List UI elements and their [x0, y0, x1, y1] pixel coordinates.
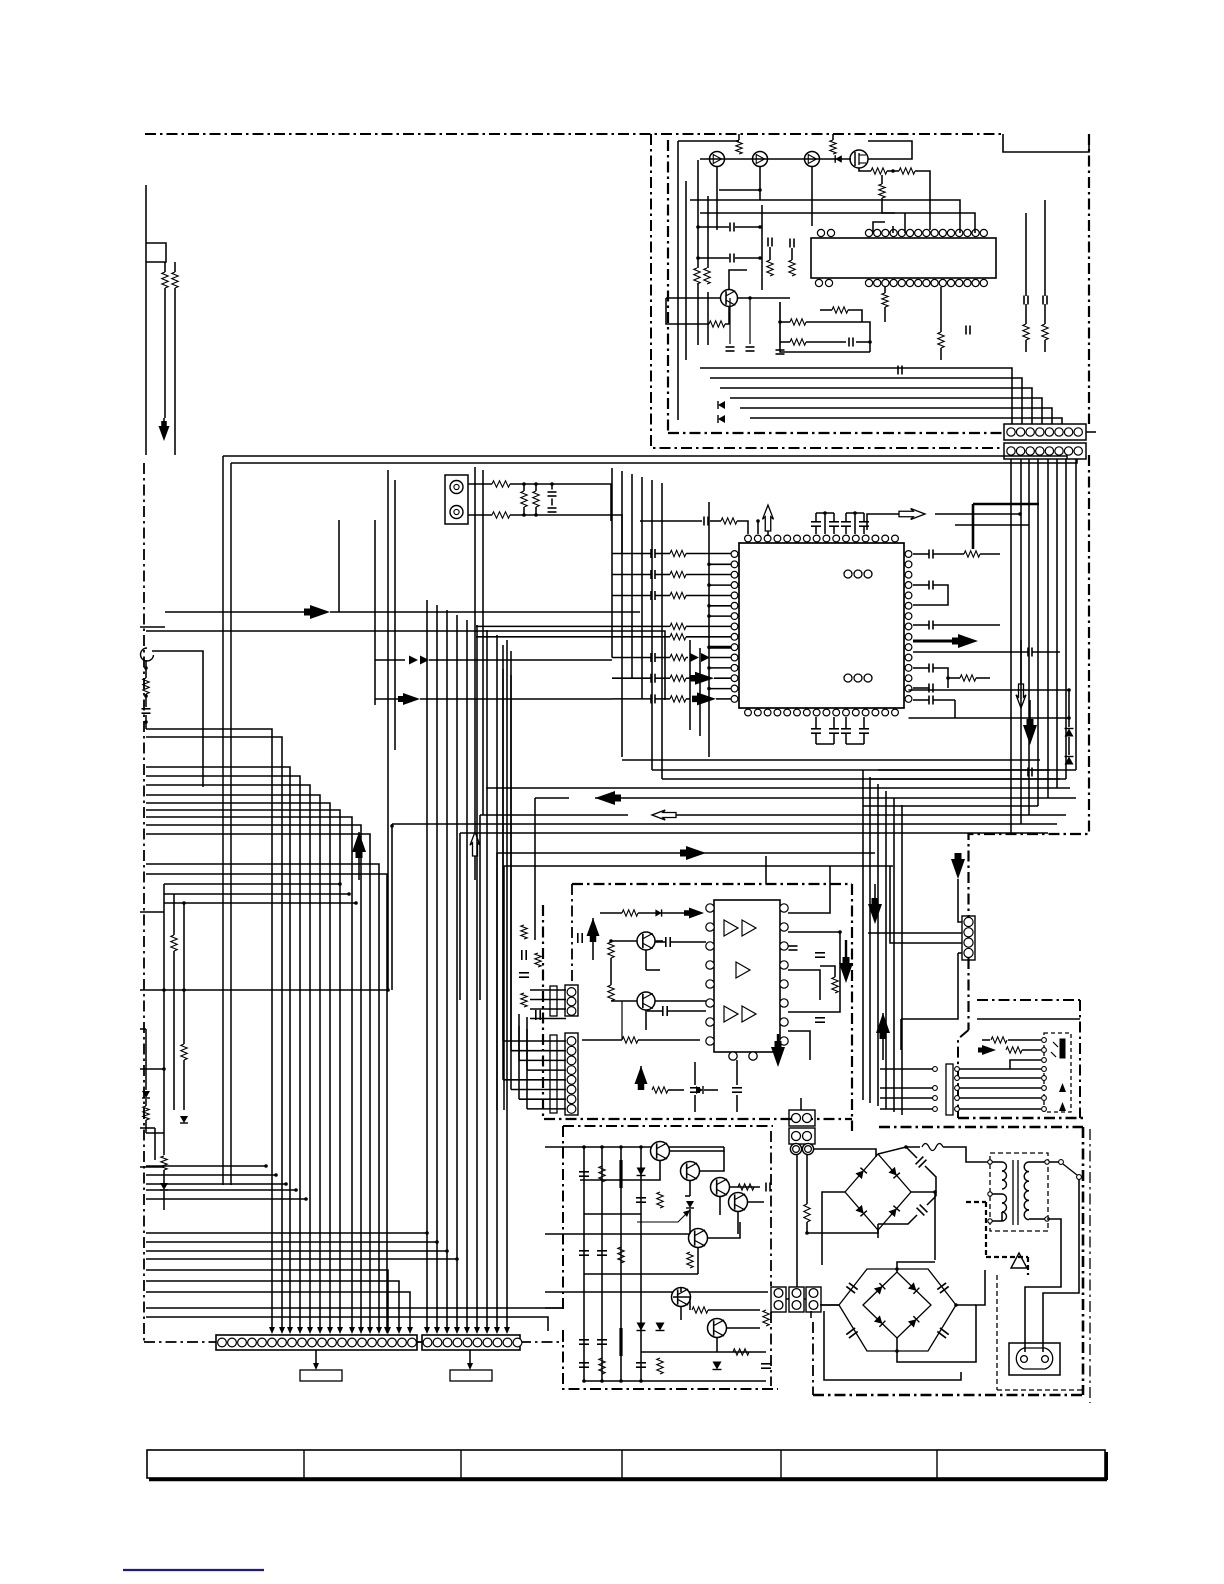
arrow left row 798 [535, 791, 1076, 940]
capacitor C508 tilted [937, 1328, 948, 1338]
resistor R501 row [982, 1037, 1046, 1043]
capacitor C301 [142, 709, 151, 713]
wire: stub rows [140, 912, 390, 1167]
pins U101 top [817, 229, 987, 236]
connector CN308 10p [422, 1335, 522, 1350]
capacitor C502 tilted [917, 1205, 928, 1216]
wire: right rows to diodes [909, 688, 1071, 720]
pins U301 right [780, 904, 788, 1045]
resistor row mid-left [476, 623, 731, 629]
pins U301 left [706, 904, 714, 1045]
arrow right amp feed [680, 846, 706, 860]
transistor Q503 [711, 1178, 730, 1197]
diode D303 [160, 1170, 168, 1210]
connector CN304 4p [962, 916, 975, 960]
capacitor C408 [690, 1062, 700, 1112]
row with arrow 678 [612, 672, 731, 685]
wire: below-IC horizontals A [486, 760, 1070, 788]
wire: left entry vertical [145, 185, 147, 455]
capacitor C107 [849, 338, 853, 347]
op-amp U201 main LSI [739, 543, 904, 708]
pins U201 top [745, 535, 899, 542]
diode D302 [180, 1116, 188, 1123]
capacitor C105 [726, 298, 735, 351]
wire: regulator hookup [580, 1147, 771, 1370]
node pads upper [844, 570, 872, 578]
connector CN305 [789, 1110, 815, 1126]
tuner block border dash-dot [668, 134, 1089, 433]
capacitor C211 resistor R205 [640, 517, 748, 535]
capacitor electrolytic [619, 1160, 622, 1188]
wire: bottom dash-dot at strips [144, 1330, 563, 1342]
resistor R111 [790, 339, 806, 345]
resistor R103 [871, 168, 887, 174]
capacitor C217 resistor R210 [913, 550, 1000, 559]
transistor Q507 [708, 1319, 727, 1338]
resistor rail [657, 1192, 663, 1208]
capacitor C114 [776, 302, 785, 354]
arrow up right col [876, 1013, 890, 1060]
wire: left lower rails [164, 884, 186, 1155]
transistor Q504 [729, 1193, 748, 1212]
capacitor C219 [913, 621, 1000, 630]
wire: secondary out [1025, 1219, 1061, 1352]
transformer primary coil 2 [1002, 1194, 1007, 1221]
wire: block top horizontals [690, 167, 975, 233]
resistor R101 [736, 140, 742, 154]
capacitor rail [579, 1340, 589, 1344]
capacitor C218 loop [913, 581, 948, 606]
op-amp triangles [724, 920, 756, 1022]
capacitor C203-C206 top decoupling [811, 511, 869, 534]
capacitor C101 [697, 223, 762, 232]
capacitor C201 [548, 492, 557, 496]
pins U201 left [731, 551, 738, 703]
resistor R204 [533, 491, 539, 507]
resistor R502 arrow row [978, 1045, 1046, 1055]
feedthrough header [946, 1064, 953, 1115]
transistor Q502 [681, 1162, 700, 1181]
capacitor rail [579, 1363, 589, 1367]
resistor R306 [143, 1099, 164, 1133]
node pads lower [844, 674, 872, 682]
wire: q105 hookup [666, 270, 790, 324]
capacitor C104 + resistor [789, 239, 795, 277]
capacitor C401 [655, 937, 706, 947]
fuse F501 [922, 1144, 988, 1163]
wire: bridge2 outer ring [839, 1267, 956, 1353]
wire: bus L-runs [700, 368, 1062, 424]
pins U101 bottom [815, 279, 987, 286]
wire: row risers [652, 626, 662, 779]
connector CN302 3p [565, 985, 578, 1016]
capacitor rail [597, 1340, 607, 1344]
feedthrough terminals left [933, 1067, 938, 1112]
capacitor C501 tilted [916, 1157, 927, 1168]
connector CN303 8p [565, 1033, 578, 1115]
amp border dash-dot [543, 884, 852, 1131]
wire: network under U101 [778, 302, 872, 352]
wire: main left verticals [223, 456, 231, 1185]
op-amp U101 tuner IC [811, 238, 996, 278]
diode triangle up 1 [1059, 1083, 1066, 1092]
wire: risers to strip2 [424, 600, 510, 1334]
connector CN101 8p [1004, 424, 1086, 440]
wire: rows to regulator [146, 1270, 563, 1334]
wire: aux row3 step [1010, 1058, 1046, 1069]
diode D101 [835, 155, 842, 163]
wire: rows B [390, 824, 1057, 1000]
row with arrow 699 [612, 692, 731, 705]
capacitor C222 [913, 696, 955, 705]
op-amp U301 [714, 900, 780, 1052]
wire: sensor chain [144, 660, 148, 729]
arrow up bottom + diode [635, 1066, 719, 1094]
wire: strip A right stub [1086, 431, 1096, 433]
wire: left border dash-dot [143, 463, 145, 1342]
wire: regulator buses [545, 1214, 768, 1352]
capacitor C409 [732, 1060, 742, 1112]
diode triangle up 2 [1059, 1102, 1066, 1111]
bold dashed step [966, 1202, 1028, 1275]
arrow down amp right [868, 884, 882, 924]
transformer secondary coil [1024, 1162, 1029, 1220]
connector CN502 [789, 1287, 804, 1312]
wire: amp outer box [497, 853, 893, 1110]
arrow down right col [1023, 700, 1037, 745]
power border thin outer [1089, 1129, 1091, 1403]
warning triangle [1011, 1253, 1027, 1268]
wire: bridge1 ring [878, 1145, 936, 1238]
wire: amp right bundle [863, 770, 902, 1115]
transistor Q501 [651, 1142, 670, 1161]
resistor R401 [600, 910, 690, 916]
label box CN301 [300, 1350, 342, 1381]
resistor R113 [938, 287, 944, 360]
aux block borders [958, 1000, 1085, 1118]
header bar CN303 [550, 1035, 557, 1113]
wire: left rails [165, 262, 175, 455]
capacitor rail [579, 1172, 589, 1176]
pointer annotation [637, 1210, 690, 1222]
wire: CN302 rows [530, 990, 566, 1019]
wire: cn501 link [786, 1299, 839, 1305]
capacitor C207-C210 bottom decoupling [811, 717, 869, 744]
connector CN503 [806, 1287, 821, 1312]
capacitor C403 [647, 1006, 706, 1016]
bridge rectifier D502 [863, 1272, 931, 1338]
transformer core [1013, 1160, 1018, 1225]
wire: bundle stubs right end [164, 882, 358, 905]
resistor R109 [790, 319, 806, 325]
power border bold dash-dot [813, 1127, 1083, 1395]
capacitor C214 row [612, 570, 731, 579]
resistor R107 [704, 268, 710, 284]
resistor R108 [709, 321, 725, 327]
wire: rows into strip2 [146, 1231, 459, 1261]
wire: long risers 475 483 [475, 467, 483, 833]
wire: xtal link [756, 519, 760, 534]
wire: block left rails [678, 141, 762, 420]
diode rail [637, 1168, 646, 1176]
capacitor C102 [697, 205, 762, 290]
label box CN308 [450, 1350, 492, 1381]
capacitor C406 C407 resistor [815, 953, 838, 1022]
aux black bar [1051, 1039, 1065, 1058]
arrow data out [913, 634, 978, 648]
capacitor C110 [1023, 213, 1029, 352]
resistor rail [657, 1358, 663, 1374]
diode D102 [718, 401, 725, 409]
wire: regulator rails [545, 1145, 766, 1383]
diode rail [637, 1323, 646, 1331]
wire: staircase from CN102 [1011, 459, 1076, 833]
transistor Q102 [753, 152, 768, 167]
wire: bold line into pin [707, 645, 731, 649]
connector CN501 [771, 1287, 786, 1312]
wire: fet bias [859, 168, 930, 230]
capacitor C215 row [612, 591, 731, 600]
header bar CN302 [550, 986, 557, 1016]
diode D402 [655, 909, 661, 916]
transistor Q101 [710, 152, 725, 167]
transistor Q103 [805, 152, 820, 167]
transistor Q302 [637, 992, 655, 1010]
wire: lower-left joins [146, 1164, 308, 1201]
transistor Q301 [637, 932, 655, 950]
wire: aux top rail [977, 1018, 1080, 1020]
capacitor rail [579, 1251, 589, 1255]
resistor R104 [899, 168, 915, 174]
resistor R301 [162, 272, 168, 288]
feedthrough terminals right [955, 1067, 960, 1112]
open arrow right top [867, 509, 925, 531]
resistor R110 [832, 307, 848, 313]
connector J101 jacks [445, 475, 468, 524]
connector CN306 [789, 1128, 815, 1144]
pins U301 bottom [729, 1052, 757, 1060]
resistor R304 [171, 935, 177, 951]
wire: risers mid [339, 470, 395, 990]
open arrow up mid [470, 832, 480, 880]
resistor R112 [882, 287, 888, 322]
capacitor rail [597, 1251, 607, 1255]
wire: outer boundary top dash-dot [145, 133, 1003, 135]
double arrowhead row 660 [375, 656, 612, 665]
photo sensor J301 [141, 648, 203, 787]
resistor rail [599, 1358, 605, 1374]
wire: transformer leads [988, 1160, 1049, 1223]
capacitor C103 + resistor [767, 238, 773, 277]
wire: rows B2 [863, 770, 1076, 806]
diode D103 [718, 415, 725, 423]
capacitor C402 [578, 933, 582, 943]
title box [1003, 134, 1089, 152]
wire: inner verticals [690, 502, 709, 757]
resistor rail [618, 1247, 624, 1263]
footer link underline [123, 1569, 264, 1571]
arrow down amp inner [839, 940, 853, 983]
wire: strip B taps [935, 504, 1039, 549]
capacitor C506 tilted [937, 1283, 948, 1293]
wire: cn stack link [766, 856, 876, 1157]
resistor R503 [804, 1204, 810, 1222]
wire: left bus verticals [612, 468, 662, 757]
power switch S501 [1043, 1160, 1081, 1352]
resistor R403 [608, 985, 614, 1001]
diode rail [656, 1323, 665, 1331]
pins U201 right [905, 551, 912, 703]
arrow down left feed [159, 418, 170, 441]
wire: bridge2 hookup [811, 1262, 985, 1380]
AC power inlet [1009, 1343, 1060, 1375]
aux dashed box [1044, 1033, 1071, 1112]
capacitor C220 [913, 648, 1060, 657]
wire: left harness bundle [146, 729, 390, 1334]
capacitor rail [636, 1198, 646, 1202]
open arrow left row 815 [480, 810, 1066, 1000]
open arrow up xtal [763, 505, 774, 536]
wire: main double top line [223, 456, 1077, 463]
arrow into amp pin [684, 908, 704, 919]
arrow down IC right bottom [771, 1034, 785, 1067]
wire: q301 q302 [609, 939, 706, 1040]
transformer dashed box [990, 1153, 1048, 1231]
arrow serial right [165, 605, 640, 619]
capacitor C108 [898, 366, 902, 375]
wire: CN304 feeds [868, 866, 962, 1050]
resistor R402 [608, 942, 614, 958]
node box left [146, 243, 166, 262]
footer table [147, 1450, 1107, 1480]
capacitor C109 [966, 326, 970, 335]
capacitor C224 [1028, 768, 1032, 777]
resistor R102 [830, 140, 836, 154]
resistor R302 [172, 272, 178, 288]
capacitor C404 [519, 950, 529, 977]
wire: jack harness [468, 482, 622, 554]
wire: outer boundary corner x651 [651, 134, 1003, 448]
resistor rail [599, 1166, 605, 1182]
wire: CN303 rows [503, 645, 566, 1109]
arrow up mid [352, 832, 366, 880]
resistor R305 [181, 1044, 187, 1060]
arrow down into CN304 [951, 853, 965, 922]
resistor row mid-left [476, 634, 731, 640]
transistor Q505 [689, 1229, 708, 1248]
wire: transistor row [700, 134, 912, 159]
resistor R105 [879, 184, 885, 198]
resistor R307 [161, 1156, 167, 1170]
capacitor C405 [789, 946, 798, 950]
capacitor C221 pair [913, 664, 990, 693]
capacitor C507 tilted [846, 1328, 857, 1338]
arrow row 699 [375, 693, 612, 705]
capacitor C505 tilted [846, 1283, 857, 1293]
wire: right border lower [969, 455, 1090, 1030]
regulator border dash-dot [563, 1126, 778, 1389]
pins U201 bottom [745, 709, 899, 716]
resistor group inner [521, 925, 541, 1020]
resistor R404 [582, 1037, 700, 1043]
diode D201 [1065, 690, 1074, 737]
transistor Q104 FET [850, 150, 868, 168]
connector CN301 20p [216, 1335, 417, 1350]
resistor R201 [492, 481, 510, 487]
capacitor C202 [548, 508, 557, 512]
resistor R106 [694, 268, 700, 284]
capacitor C106 [746, 298, 755, 351]
resistor R202 [492, 512, 510, 518]
row with double arrowhead [612, 653, 731, 662]
resistor R303 [143, 678, 149, 694]
wire: aux rows lower [880, 1067, 1046, 1112]
diode D301 [142, 1091, 150, 1098]
capacitor C111 [1042, 200, 1048, 352]
connector CN102 8p [1004, 443, 1086, 459]
capacitor rail [636, 1363, 646, 1367]
open arrow down right [1016, 640, 1026, 708]
resistor R203 [521, 491, 527, 507]
bridge rectifier D501 [845, 1154, 911, 1230]
wire: pin stubs from bus [707, 563, 731, 691]
wire: long row 631 [140, 627, 665, 700]
diode D202 [1065, 737, 1074, 765]
capacitor C213 row [612, 549, 731, 558]
wire: amp right side [788, 866, 842, 1060]
arrow up amp left [587, 918, 600, 960]
capacitor electrolytic [619, 1328, 622, 1356]
transformer primary coil 1 [1002, 1162, 1007, 1189]
thin dashed enclosure [997, 1275, 1085, 1390]
transistor Q105 [721, 290, 738, 307]
transistor Q506 [672, 1288, 691, 1307]
connector CN307 jack pair [790, 1143, 813, 1154]
wire: bridge1 hookup [797, 1155, 937, 1287]
